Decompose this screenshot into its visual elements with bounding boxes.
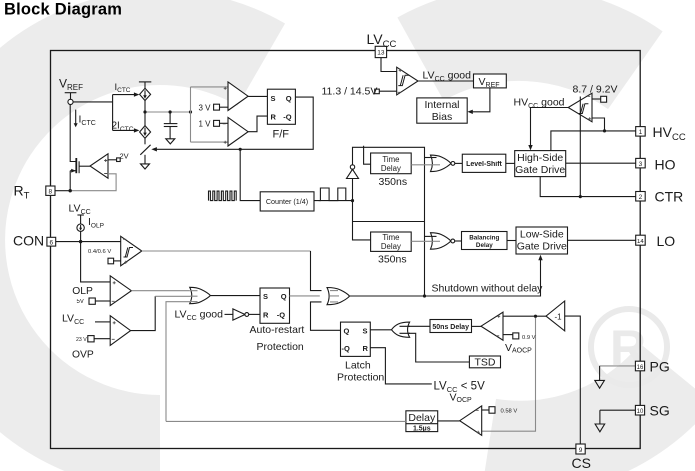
junction RT node xyxy=(69,189,72,192)
comparator U18 OCP xyxy=(460,406,482,435)
box LSGD low-side gate drive xyxy=(516,227,568,254)
svg-text:Auto-restart: Auto-restart xyxy=(250,324,305,336)
comparator U9 OVP xyxy=(110,316,130,346)
wire latch S from OR3 xyxy=(370,329,391,331)
ground below switch xyxy=(141,164,150,169)
latch pin letters xyxy=(342,326,369,353)
capacitor CT xyxy=(164,112,178,139)
watermark registered mark xyxy=(591,309,667,385)
gate OR2 shutdown xyxy=(327,288,350,305)
IC boundary box xyxy=(51,51,641,449)
svg-text:2V: 2V xyxy=(120,152,129,161)
svg-text:TSD: TSD xyxy=(475,356,496,368)
switch S1 discharge xyxy=(140,138,150,164)
svg-text:Block Diagram: Block Diagram xyxy=(4,1,122,19)
pin 8 RT xyxy=(46,186,70,195)
junction AOCP node xyxy=(534,315,537,318)
svg-text:Delay: Delay xyxy=(381,164,401,173)
svg-text:F/F: F/F xyxy=(273,129,290,141)
svg-text:13: 13 xyxy=(377,50,385,57)
wire inverted clock to deadtime riser xyxy=(353,147,425,296)
wire OR3 top input from 50ns delay xyxy=(408,325,430,327)
svg-text:HVCC good: HVCC good xyxy=(514,97,565,111)
wire VREF node down to MOSFET drain xyxy=(70,105,75,162)
pin 1 box HVCC xyxy=(636,127,646,137)
pin 6 CON wire xyxy=(55,241,120,243)
terminal 0.58V xyxy=(482,407,495,414)
wire level-shift to HSGD xyxy=(506,162,515,164)
svg-text:16: 16 xyxy=(637,365,644,371)
wire U13 output HVCC good to HSGD (arrow down) xyxy=(528,108,568,151)
F/F pin letters xyxy=(271,94,292,122)
comparator U13 HVCC good 8.7/9.2V xyxy=(568,93,592,122)
wire latch Q to shutdown OR bottom xyxy=(311,302,341,330)
svg-text:10: 10 xyxy=(637,409,644,415)
amp U17 inverting -1 xyxy=(546,301,565,331)
box TSD xyxy=(469,356,500,368)
svg-text:OVP: OVP xyxy=(72,349,94,360)
svg-text:LO: LO xyxy=(657,233,676,249)
pin 2 box CTR xyxy=(636,192,646,202)
junction CT node dots xyxy=(143,110,192,113)
wire comparator input net (gray) xyxy=(191,87,229,142)
inverter U11 for LVCC good xyxy=(225,309,261,320)
wire junction down to counter input xyxy=(240,149,260,200)
wire bridge riser crossing comparator xyxy=(579,97,581,197)
gate OR1 fault xyxy=(190,287,211,303)
terminal 14.5V xyxy=(375,89,397,94)
svg-text:Shutdown without delay: Shutdown without delay xyxy=(432,282,544,294)
svg-text:-Q: -Q xyxy=(342,344,350,353)
box delay 1.5us xyxy=(406,411,438,432)
terminal 0.9V xyxy=(503,333,519,339)
wire shutdown net to LSGD (arrow up) xyxy=(349,255,542,296)
supply LVCC bar for IOLP xyxy=(77,215,84,224)
wire VREF to internal bias (arrow left) xyxy=(467,88,490,114)
flip-flop U15 latch protection xyxy=(341,322,371,356)
junction shutdown/deadtime riser xyxy=(423,294,426,297)
wire U9 output to fault OR xyxy=(131,296,156,330)
wire stubs entering gate OR2 xyxy=(330,291,339,302)
wire HVCC pin 1 to HSGD xyxy=(551,131,636,151)
gate OR3 facing left xyxy=(392,322,410,337)
wire stubs entering gate NOR2 xyxy=(431,240,440,242)
comparator U3 (3V) xyxy=(228,82,248,111)
wire NOR1 to level-shift xyxy=(455,162,463,164)
svg-text:HO: HO xyxy=(655,156,676,172)
svg-text:Latch: Latch xyxy=(345,360,371,372)
svg-text:8.7 / 9.2V: 8.7 / 9.2V xyxy=(573,84,618,96)
svg-text:5V: 5V xyxy=(77,299,84,305)
wire U7 output to shutdown OR (gray) xyxy=(142,250,311,252)
hysteresis glyph U14 xyxy=(398,75,409,85)
current source I2 (2ICTC) xyxy=(140,126,151,139)
watermark ring left xyxy=(0,38,261,443)
svg-text:1 V: 1 V xyxy=(199,119,212,128)
svg-text:High-Side: High-Side xyxy=(517,152,563,164)
box HSGD high-side gate drive xyxy=(515,151,566,177)
wire counter output xyxy=(314,200,353,202)
comparator 1V threshold terminal xyxy=(214,120,228,126)
comparator 3V threshold terminal xyxy=(214,104,228,110)
svg-text:8: 8 xyxy=(48,189,52,196)
junction CTR riser xyxy=(579,195,582,198)
wire U7 riser into shutdown OR top xyxy=(311,251,322,291)
terminal 8.7/9.2V xyxy=(592,96,607,102)
wire HO to pin 3 xyxy=(566,162,636,164)
pin 6 CON box xyxy=(47,237,56,246)
pin 9 box CS xyxy=(576,444,585,454)
wire NOR2 to balancing delay xyxy=(455,240,462,242)
svg-text:0.9 V: 0.9 V xyxy=(522,335,536,341)
wire -1 output to U16 input xyxy=(503,315,546,317)
ground below capacitor xyxy=(166,139,175,144)
pin 13 box xyxy=(375,46,386,57)
box VREF regulator xyxy=(474,74,507,88)
svg-text:LVCC good: LVCC good xyxy=(423,70,472,84)
wire VREF node to current-source branch xyxy=(73,95,113,131)
wire AOCP node down to OCP comparator (gray) xyxy=(482,316,536,431)
watermark ring right xyxy=(421,33,636,70)
wire U17 input from CS riser xyxy=(565,316,581,444)
svg-text:Delay: Delay xyxy=(476,242,493,249)
svg-text:R: R xyxy=(271,112,277,121)
svg-text:CON: CON xyxy=(13,233,44,249)
hysteresis glyph U7 xyxy=(124,248,134,258)
svg-text:PG: PG xyxy=(650,358,670,374)
wire 2ICTC into current source I2 (arrow) xyxy=(113,128,140,132)
wire U16 out to 50ns delay xyxy=(472,325,482,327)
junction HVCC comparator tap xyxy=(603,129,606,132)
svg-text:11.3 / 14.5V: 11.3 / 14.5V xyxy=(322,85,378,97)
svg-text:-Q: -Q xyxy=(277,310,285,319)
svg-text:14: 14 xyxy=(637,239,644,245)
svg-text:S: S xyxy=(263,292,268,301)
svg-text:-1: -1 xyxy=(555,312,563,321)
wire U2 feedback to RT node (gray) xyxy=(71,174,116,191)
pin 13 LVCC wire down to U14 xyxy=(381,58,397,72)
wire OR3 bottom input from TSD xyxy=(408,333,469,362)
wire riser tap to NOR2 top input xyxy=(425,235,431,237)
wire U3 out to F/F S xyxy=(248,95,267,97)
svg-text:R: R xyxy=(363,344,369,353)
wire delay feedback into fault OR (gray) xyxy=(166,302,193,422)
terminal 2V reference xyxy=(108,158,120,162)
svg-text:Time: Time xyxy=(382,233,399,242)
watermark ring right lower arc xyxy=(489,374,677,449)
waveform slow pulses xyxy=(319,188,346,201)
op-amp U2 xyxy=(90,154,108,178)
svg-text:0.4/0.6 V: 0.4/0.6 V xyxy=(88,249,111,255)
svg-text:Gate Drive: Gate Drive xyxy=(517,241,567,253)
pin 3 box HO xyxy=(636,158,646,168)
svg-text:CTR: CTR xyxy=(655,188,684,204)
terminal 5V xyxy=(89,298,110,304)
pin 10 SG wire and ground xyxy=(595,410,635,432)
wire auto-restart Q to shutdown OR (gray) xyxy=(290,295,320,297)
svg-text:3: 3 xyxy=(639,161,643,168)
svg-text:6: 6 xyxy=(49,239,53,246)
waveform fast pulses xyxy=(209,191,237,201)
wire OR1 out to auto-restart S xyxy=(210,295,260,297)
svg-text:Level-Shift: Level-Shift xyxy=(466,161,502,168)
box 50ns delay xyxy=(430,320,472,333)
flip-flop U10 auto-restart xyxy=(260,288,290,323)
gate NOR1 xyxy=(431,155,455,172)
flip-flop U5 F/F xyxy=(267,89,295,124)
wire U18 out to delay box xyxy=(438,420,460,422)
gate NOR2 xyxy=(431,233,455,250)
svg-text:50ns Delay: 50ns Delay xyxy=(432,324,469,331)
wire U9 to OR input (gray) xyxy=(155,295,190,297)
svg-text:3 V: 3 V xyxy=(199,103,212,112)
current source IOLP xyxy=(77,224,84,242)
svg-text:Delay: Delay xyxy=(408,412,436,424)
wire clock down to time delay TD2 xyxy=(353,201,371,240)
wire riser tap to NOR1 top input xyxy=(425,157,431,159)
svg-text:2: 2 xyxy=(639,194,643,201)
svg-text:Q: Q xyxy=(344,326,350,335)
counter U6 box xyxy=(260,192,314,211)
svg-text:0.58 V: 0.58 V xyxy=(501,408,518,414)
wire LVCC good to VREF block xyxy=(418,80,474,82)
svg-text:LVCC < 5V: LVCC < 5V xyxy=(434,381,486,395)
box internal bias xyxy=(417,98,467,123)
box TD2 time delay 350ns xyxy=(371,232,412,251)
transistor Q1 MOSFET xyxy=(70,158,79,191)
svg-text:CS: CS xyxy=(572,455,591,471)
box level-shift xyxy=(462,154,506,172)
svg-text:Internal: Internal xyxy=(424,99,459,111)
svg-text:Protection: Protection xyxy=(257,341,304,353)
svg-text:350ns: 350ns xyxy=(379,176,408,188)
wire TD1 out to NOR1 (gray) xyxy=(411,164,431,166)
wire I1 to CT node xyxy=(144,101,146,126)
svg-text:350ns: 350ns xyxy=(378,254,407,266)
svg-text:Protection: Protection xyxy=(337,372,384,384)
terminal 23V xyxy=(88,336,110,342)
svg-text:Low-Side: Low-Side xyxy=(520,229,564,241)
pin 14 box LO xyxy=(636,235,646,245)
svg-text:Counter (1/4): Counter (1/4) xyxy=(266,197,308,206)
svg-text:SG: SG xyxy=(650,402,670,418)
wire latch R to LVCC lt 5V xyxy=(370,348,432,384)
svg-text:1: 1 xyxy=(639,129,643,136)
svg-text:Balancing: Balancing xyxy=(469,234,499,241)
svg-text:Q: Q xyxy=(281,292,287,301)
current source I1 (ICTC) xyxy=(139,82,151,101)
wire stubs entering gate NOR1 xyxy=(431,164,440,166)
wire U8 output to fault OR (gray) xyxy=(131,290,190,292)
wire delay out feedback (gray) xyxy=(166,420,406,422)
node VREF supply bar xyxy=(65,93,77,100)
svg-text:Q: Q xyxy=(286,94,292,103)
pin 16 PG wire and ground xyxy=(595,366,636,388)
wire U2 output to MOSFET gate xyxy=(79,165,90,167)
auto-restart pin letters xyxy=(263,292,287,319)
pin 16 box PG xyxy=(635,361,644,371)
svg-text:Gate Drive: Gate Drive xyxy=(515,164,565,176)
terminal 0.4/0.6V xyxy=(108,258,121,264)
wire ICTC into current source I1 (arrow) xyxy=(113,92,140,96)
wire LVCC into U9 xyxy=(95,321,110,323)
comparator U8 OLP xyxy=(110,276,131,306)
pin 10 box SG xyxy=(635,405,644,415)
comparator U14 LVCC good 11.3/14.5V xyxy=(397,67,418,95)
wire U13 input from HVCC line xyxy=(592,118,605,131)
wire CT node to comparator net (gray) xyxy=(145,111,191,113)
comparator U7 CON 0.4/0.6V xyxy=(121,236,142,265)
junction discharge/counter xyxy=(239,148,242,151)
svg-text:9: 9 xyxy=(579,447,583,454)
svg-text:LVCC good: LVCC good xyxy=(175,309,224,323)
svg-text:-Q: -Q xyxy=(283,112,291,121)
svg-text:Time: Time xyxy=(382,155,399,164)
label ICTC with down arrow xyxy=(74,110,96,128)
wire balancing delay to LSGD xyxy=(507,240,516,242)
wire TD2 out to NOR2 (gray) xyxy=(411,240,431,242)
wire stubs entering gate OR1 xyxy=(190,291,198,302)
svg-text:S: S xyxy=(363,326,368,335)
box TD1 time delay 350ns xyxy=(371,153,412,174)
svg-text:1.5µs: 1.5µs xyxy=(413,426,431,433)
svg-text:R: R xyxy=(263,310,269,319)
junction counter node xyxy=(351,199,354,202)
wire stub into time delay TD1 xyxy=(364,146,371,164)
comparator U16 AOCP xyxy=(481,312,503,340)
svg-text:OLP: OLP xyxy=(72,286,93,297)
svg-text:23 V: 23 V xyxy=(76,337,87,343)
box balancing delay xyxy=(462,232,508,250)
svg-text:S: S xyxy=(271,94,276,103)
wire stubs entering gate OR3 xyxy=(400,326,411,333)
wire LO to pin 14 xyxy=(568,239,636,241)
polarity marks on comparators xyxy=(104,69,591,434)
wire CTR net xyxy=(540,177,636,197)
hysteresis glyph U13 xyxy=(579,104,589,114)
junction CON node xyxy=(79,240,82,243)
wire clock branch to riser xyxy=(353,221,425,223)
node VREF circle xyxy=(68,99,73,104)
wire U4 out to F/F R xyxy=(248,116,267,132)
svg-text:Bias: Bias xyxy=(432,111,452,123)
inverter U12 on counter output xyxy=(347,165,359,201)
svg-text:Delay: Delay xyxy=(381,242,401,251)
comparator U4 (1V) xyxy=(228,117,248,146)
wire F/F Q to discharge switch (arrow left) xyxy=(151,97,313,151)
wire CON node down to OLP comparator xyxy=(81,242,111,282)
